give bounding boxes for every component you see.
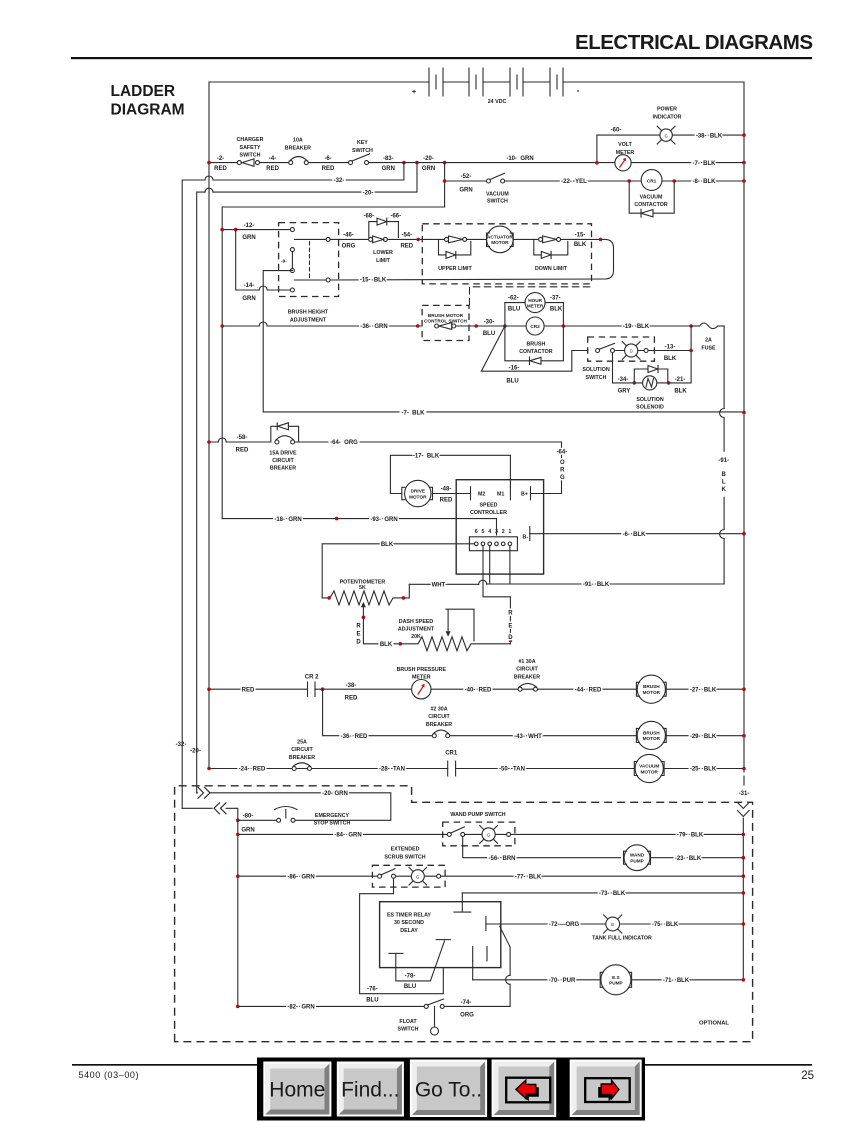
hour meter M2: [505, 293, 564, 313]
svg-text:-15-: -15-: [575, 233, 586, 239]
node row1-left rail junction: [207, 161, 211, 165]
svg-text:-23- BLK: -23- BLK: [675, 856, 702, 862]
chevron break -80-: [214, 803, 226, 814]
svg-text:RED: RED: [236, 448, 249, 454]
wire -86- GRN row: [238, 875, 378, 877]
svg-text:CONTROL SWITCH: CONTROL SWITCH: [424, 319, 467, 324]
motor brush motor 1: [636, 675, 666, 703]
svg-text:-66-: -66-: [390, 214, 401, 220]
wire -91- BLK vertical: [723, 326, 725, 584]
wire pin4 pin1 WHT row: [490, 546, 510, 584]
svg-text:-76-: -76-: [367, 986, 378, 992]
svg-text:+: +: [412, 89, 416, 96]
svg-text:BLU: BLU: [508, 306, 520, 312]
svg-text:DASH SPEED: DASH SPEED: [399, 619, 434, 625]
svg-text:EXTENDED: EXTENDED: [391, 847, 420, 853]
svg-text:BLU: BLU: [404, 984, 416, 990]
switch S8 brush motor control switch: [422, 305, 469, 340]
svg-text:-14-: -14-: [244, 283, 255, 289]
wire -60- power indicator branch: [597, 135, 744, 163]
svg-text:-79- BLK: -79- BLK: [677, 833, 704, 839]
wire -72- ORG row: [486, 923, 743, 925]
wire WHT -91- row: [409, 583, 724, 586]
svg-text:5400 (03–00): 5400 (03–00): [79, 1070, 139, 1080]
button previous page: [492, 1060, 557, 1118]
svg-text:-56- BRN: -56- BRN: [488, 856, 515, 862]
svg-text:SWITCH: SWITCH: [352, 148, 373, 154]
svg-text:G: G: [630, 349, 633, 354]
svg-text:D: D: [356, 640, 361, 646]
svg-text:HOUR: HOUR: [528, 298, 542, 303]
svg-text:-36- RED: -36- RED: [341, 734, 368, 740]
svg-text:ADJUSTMENT: ADJUSTMENT: [290, 317, 327, 323]
svg-text:-31-: -31-: [739, 791, 750, 797]
svg-text:E: E: [356, 632, 360, 638]
svg-text:1: 1: [508, 529, 511, 535]
wire -14- GRN row: [236, 230, 291, 290]
svg-text:E.S: E.S: [612, 975, 620, 980]
svg-text:#2 30A: #2 30A: [430, 707, 447, 713]
svg-text:-25- BLK: -25- BLK: [690, 767, 717, 773]
svg-text:-29- BLK: -29- BLK: [690, 734, 717, 740]
svg-text:-20-: -20-: [423, 156, 434, 162]
svg-text:SWITCH: SWITCH: [240, 153, 261, 159]
wire -9- link feed: [263, 271, 292, 412]
svg-text:R: R: [356, 624, 361, 630]
svg-text:-19- BLK: -19- BLK: [623, 324, 650, 330]
svg-text:G: G: [560, 475, 565, 481]
svg-text:G: G: [664, 133, 667, 138]
wire -6- BLK row: [530, 533, 744, 535]
svg-text:-74-: -74-: [461, 1000, 472, 1006]
relay contact CR1: [445, 751, 458, 777]
svg-text:G: G: [487, 833, 490, 838]
wire -84- GRN row: [238, 833, 447, 835]
svg-text:BRUSH HEIGHT: BRUSH HEIGHT: [288, 310, 329, 316]
node vacuum row rail junction: [742, 179, 746, 183]
svg-text:DIAGRAM: DIAGRAM: [111, 102, 185, 119]
relay contact ES-B: [389, 952, 403, 954]
motor vacuum motor: [634, 754, 664, 782]
potentiometer R1 5K: [322, 579, 409, 605]
svg-text:SAFETY: SAFETY: [240, 145, 261, 151]
svg-text:MOTOR: MOTOR: [643, 690, 661, 695]
wire CR2 contact row RED: [209, 688, 744, 690]
svg-text:CR1: CR1: [647, 178, 657, 183]
svg-text:PUMP: PUMP: [630, 859, 644, 864]
volt meter M1: [615, 142, 635, 171]
svg-text:RED: RED: [440, 498, 453, 504]
svg-text:BREAKER: BREAKER: [289, 755, 315, 761]
svg-text:GRN: GRN: [459, 188, 472, 194]
svg-text:CR 2: CR 2: [305, 675, 319, 681]
chevron break right rail down: [738, 803, 750, 817]
svg-text:-34-: -34-: [618, 377, 629, 383]
motor wand pump: [624, 845, 744, 871]
wire -70- PUR row: [473, 979, 744, 981]
svg-text:MOTOR: MOTOR: [643, 736, 661, 741]
wire -78- BLU link: [396, 941, 445, 981]
svg-text:BLK: BLK: [381, 542, 394, 548]
switch S2 key switch: [349, 140, 374, 165]
svg-text:EMERGENCY: EMERGENCY: [315, 813, 350, 819]
svg-text:-64- ORG: -64- ORG: [330, 440, 358, 446]
wire -54- segment: [387, 238, 444, 240]
svg-text:BRUSH: BRUSH: [643, 684, 660, 689]
optional equipment dashed enclosure: [175, 786, 753, 1042]
switch S3 vacuum switch: [486, 173, 509, 205]
svg-text:10A: 10A: [293, 138, 303, 144]
relay contact ES-C: [473, 947, 487, 961]
wire -58- row: [209, 442, 562, 494]
relay contact ES-D blade: [485, 917, 487, 931]
svg-text:-46-: -46-: [343, 233, 354, 239]
button Home: [263, 1062, 331, 1117]
wire -76- BLU link: [360, 878, 444, 994]
svg-text:D: D: [508, 635, 513, 641]
svg-text:MOTOR: MOTOR: [491, 240, 509, 245]
wire -36- RED row: [323, 689, 744, 736]
svg-text:Go To..: Go To..: [415, 1079, 482, 1102]
svg-text:-54-: -54-: [401, 233, 412, 239]
svg-text:-7- BLK: -7- BLK: [693, 161, 717, 167]
svg-text:LOWER: LOWER: [373, 250, 393, 256]
svg-text:SPEED: SPEED: [480, 503, 498, 509]
node vacuum row junction: [443, 179, 447, 183]
svg-text:-84- GRN: -84- GRN: [334, 833, 361, 839]
svg-text:-27- BLK: -27- BLK: [690, 687, 717, 693]
brush pressure meter M3: [397, 667, 447, 699]
battery B1 24VDC: [412, 68, 580, 105]
svg-text:L: L: [722, 480, 726, 486]
svg-text:-32-: -32-: [334, 178, 345, 184]
svg-text:LIMIT: LIMIT: [376, 258, 391, 264]
node J1: [402, 161, 406, 165]
svg-text:-82- GRN: -82- GRN: [287, 1005, 314, 1011]
svg-text:-93- GRN: -93- GRN: [370, 517, 397, 523]
svg-text:2: 2: [502, 529, 505, 535]
svg-text:BREAKER: BREAKER: [426, 722, 452, 728]
svg-text:-62-: -62-: [508, 295, 519, 301]
wire -16- BLU link: [481, 326, 587, 371]
svg-text:-75- BLK: -75- BLK: [652, 922, 679, 928]
svg-text:-8- BLK: -8- BLK: [693, 179, 717, 185]
svg-text:-32-: -32-: [176, 742, 187, 748]
svg-text:20K: 20K: [411, 634, 421, 640]
wire -56- BRN row: [463, 836, 621, 857]
wire -73- BLK row: [462, 892, 743, 894]
svg-text:SWITCH: SWITCH: [586, 375, 607, 381]
svg-text:GRN: GRN: [382, 166, 395, 172]
node CR1 coil right: [672, 179, 676, 183]
svg-text:-7- BLK: -7- BLK: [402, 410, 426, 416]
svg-text:DELAY: DELAY: [400, 928, 418, 934]
svg-text:-83-: -83-: [383, 156, 394, 162]
rheostat R2 dash speed adjustment 20K: [394, 609, 510, 651]
svg-text:-28- TAN: -28- TAN: [379, 767, 405, 773]
svg-text:25A: 25A: [297, 740, 307, 746]
svg-text:FUSE: FUSE: [701, 345, 716, 351]
switch S4 brush height adjustment: [279, 223, 339, 324]
svg-text:-40- RED: -40- RED: [465, 687, 492, 693]
motor drive motor: [390, 480, 470, 506]
header rule: [71, 57, 812, 59]
wire wiper RED drop: [363, 617, 378, 644]
svg-text:DRIVE: DRIVE: [411, 489, 425, 494]
svg-text:CIRCUIT: CIRCUIT: [516, 667, 538, 673]
wire inner left bus: [237, 820, 239, 1006]
wire -74- riser: [509, 947, 511, 1006]
wire link row to brush bus: [222, 207, 444, 519]
svg-text:-6- BLK: -6- BLK: [623, 532, 647, 538]
circuit breaker CB3 #1 30A: [514, 659, 540, 691]
svg-text:15A DRIVE: 15A DRIVE: [269, 450, 297, 456]
svg-text:GRN: GRN: [422, 166, 435, 172]
circuit breaker CB1 10A: [285, 138, 311, 165]
svg-text:-: -: [577, 86, 580, 95]
svg-text:-52-: -52-: [461, 174, 472, 180]
fuse F1 2A: [691, 323, 724, 351]
svg-text:RED: RED: [345, 696, 358, 702]
svg-text:-15- BLK: -15- BLK: [360, 278, 387, 284]
svg-text:-24- RED: -24- RED: [239, 767, 266, 773]
switch S6 upper limit with bypass diode: [438, 236, 472, 272]
circuit breaker CB2 15A drive with bypass diode: [269, 423, 298, 472]
svg-text:SOLUTION: SOLUTION: [582, 367, 610, 373]
wire pin5 RED drop: [483, 546, 510, 644]
svg-text:-50- TAN: -50- TAN: [499, 767, 525, 773]
node power row rail junction: [742, 133, 746, 137]
svg-text:-6-: -6-: [324, 156, 331, 162]
svg-text:Home: Home: [269, 1079, 325, 1102]
svg-text:CIRCUIT: CIRCUIT: [428, 714, 450, 720]
svg-text:-68-: -68-: [363, 214, 374, 220]
svg-text:-22- YEL: -22- YEL: [561, 179, 587, 185]
svg-text:-17- BLK: -17- BLK: [413, 454, 440, 460]
svg-text:MOTOR: MOTOR: [641, 769, 659, 774]
svg-text:OPTIONAL: OPTIONAL: [699, 1021, 729, 1027]
svg-text:#1 30A: #1 30A: [518, 659, 535, 665]
svg-text:-10- GRN: -10- GRN: [506, 156, 533, 162]
svg-text:-43- WHT: -43- WHT: [514, 734, 542, 740]
actuator assembly dashed box: [422, 224, 591, 284]
wire -17- BLK loop: [390, 455, 510, 493]
wire row1: [209, 162, 744, 164]
svg-text:-91-: -91-: [718, 458, 729, 464]
wire -46- ORG segment: [330, 238, 369, 240]
node J2: [415, 161, 419, 165]
wire -15- return loop: [330, 239, 613, 280]
svg-text:-38- BLK: -38- BLK: [696, 133, 723, 139]
svg-text:GRY: GRY: [618, 389, 631, 395]
motor actuator motor: [467, 226, 539, 253]
button next page: [570, 1060, 642, 1118]
svg-text:-60-: -60-: [611, 128, 622, 134]
svg-text:CIRCUIT: CIRCUIT: [272, 458, 294, 464]
svg-text:E: E: [508, 624, 512, 630]
wire top rail: [209, 81, 744, 83]
svg-text:STOP SWITCH: STOP SWITCH: [314, 821, 351, 827]
navigation bar: [257, 1058, 645, 1121]
wire right rail: [743, 82, 745, 785]
svg-text:R: R: [560, 468, 565, 474]
wire -32- to -80- link: [182, 808, 238, 820]
lamp power indicator: [653, 107, 682, 145]
switch S1 charger safety switch: [237, 137, 264, 166]
solenoid solution solenoid with bypass diode: [613, 328, 693, 411]
switch S12 extended scrub switch with lamp: [372, 847, 445, 887]
svg-text:BLU: BLU: [366, 997, 378, 1003]
svg-text:O: O: [560, 460, 565, 466]
svg-text:-4-: -4-: [269, 156, 276, 162]
svg-text:CONTROLLER: CONTROLLER: [470, 510, 507, 516]
svg-text:VOLT: VOLT: [618, 142, 632, 148]
circuit breaker CB4 #2 30A: [426, 707, 452, 738]
wire -79- BLK: [511, 833, 744, 835]
svg-text:CONTACTOR: CONTACTOR: [519, 349, 553, 355]
svg-text:-72-—ORG: -72-—ORG: [549, 922, 580, 928]
svg-text:BLK: BLK: [380, 642, 393, 648]
wire -32- feed: [182, 163, 404, 809]
svg-text:VACUUM: VACUUM: [640, 195, 663, 201]
svg-text:-58-: -58-: [237, 435, 248, 441]
svg-text:SOLENOID: SOLENOID: [636, 404, 664, 410]
svg-text:CR2: CR2: [530, 324, 540, 329]
speed controller U1: [456, 480, 561, 574]
svg-text:6: 6: [475, 529, 478, 535]
svg-text:-38-: -38-: [346, 683, 357, 689]
footer rule: [72, 1064, 812, 1066]
switch S5 lower limit with bypass diodes: [363, 214, 401, 264]
svg-text:BLK: BLK: [574, 242, 587, 248]
svg-text:-21-: -21-: [675, 377, 686, 383]
wire right feed inside optional box: [742, 818, 744, 980]
svg-text:INDICATOR: INDICATOR: [653, 114, 682, 120]
svg-text:-16-: -16-: [509, 366, 520, 372]
svg-text:ELECTRICAL DIAGRAMS: ELECTRICAL DIAGRAMS: [575, 31, 813, 54]
svg-text:BRUSH PRESSURE: BRUSH PRESSURE: [397, 667, 447, 673]
switch S11 wand pump switch with lamp: [443, 812, 515, 846]
lamp tank full indicator: [592, 915, 652, 942]
svg-text:BLK: BLK: [550, 306, 563, 312]
svg-text:RED: RED: [214, 166, 227, 172]
svg-text:GRN: GRN: [242, 296, 255, 302]
svg-text:G: G: [416, 874, 419, 879]
svg-text:GRN: GRN: [241, 828, 254, 834]
node CR2 box left: [503, 324, 507, 328]
chevron break -20-: [198, 787, 210, 798]
svg-text:4: 4: [488, 529, 491, 535]
svg-text:ACTUATOR: ACTUATOR: [487, 234, 513, 239]
svg-text:B-: B-: [523, 535, 529, 541]
wire vacuum switch row: [445, 163, 744, 207]
relay ES timer relay box: [380, 902, 501, 968]
svg-text:-70- PUR: -70- PUR: [549, 978, 576, 984]
node emergency stop junction: [236, 819, 240, 823]
switch S13 float switch: [398, 999, 445, 1035]
svg-text:5: 5: [482, 529, 485, 535]
svg-text:SCRUB SWITCH: SCRUB SWITCH: [384, 854, 425, 860]
node row1-right rail junction: [742, 161, 746, 165]
svg-text:-9-: -9-: [281, 259, 287, 264]
svg-text:BREAKER: BREAKER: [285, 145, 311, 151]
svg-text:VACUUM: VACUUM: [639, 764, 659, 769]
relay coil CR1 vacuum contactor: [629, 170, 674, 218]
svg-text:-73- BLK: -73- BLK: [599, 891, 626, 897]
svg-text:RED: RED: [242, 687, 255, 693]
svg-text:R: R: [508, 611, 513, 617]
svg-text:WHT: WHT: [432, 583, 446, 589]
node J3: [443, 161, 447, 165]
circuit breaker CB5 25A: [289, 740, 315, 771]
svg-text:-71- BLK: -71- BLK: [663, 978, 690, 984]
svg-text:-77- BLK: -77- BLK: [515, 874, 542, 880]
svg-text:-78-: -78-: [405, 974, 416, 980]
switch S10 emergency stop: [238, 807, 351, 827]
svg-text:M1: M1: [497, 492, 504, 498]
wire -20- GRN into box: [197, 793, 391, 821]
svg-text:CIRCUIT: CIRCUIT: [291, 747, 313, 753]
svg-text:-2-: -2-: [217, 156, 224, 162]
svg-text:-36- GRN: -36- GRN: [360, 324, 387, 330]
switch S7 down limit with bypass diode: [534, 236, 568, 272]
svg-text:WAND PUMP SWITCH: WAND PUMP SWITCH: [450, 812, 505, 818]
svg-text:RED: RED: [400, 244, 413, 250]
svg-text:MOTOR: MOTOR: [409, 494, 427, 499]
svg-text:SOLUTION: SOLUTION: [636, 397, 664, 403]
wire -77- BLK: [441, 875, 744, 877]
node CR2 box right: [562, 324, 566, 328]
svg-text:BREAKER: BREAKER: [514, 674, 540, 680]
relay coil CR2 brush contactor: [505, 303, 564, 365]
svg-text:-13-: -13-: [665, 344, 676, 350]
svg-text:-86- GRN: -86- GRN: [287, 874, 314, 880]
svg-text:BLU: BLU: [506, 379, 518, 385]
svg-text:30 SECOND: 30 SECOND: [394, 920, 424, 926]
svg-text:25: 25: [801, 1070, 814, 1082]
wire -12- GRN row: [222, 229, 290, 231]
svg-text:-48-: -48-: [441, 487, 452, 493]
svg-text:-20-: -20-: [363, 190, 374, 196]
svg-text:K: K: [722, 487, 727, 493]
svg-text:5K: 5K: [359, 585, 366, 591]
svg-text:24 VDC: 24 VDC: [488, 99, 507, 105]
svg-text:RED: RED: [266, 166, 279, 172]
svg-text:-91- BLK: -91- BLK: [583, 582, 610, 588]
svg-text:-12-: -12-: [244, 223, 255, 229]
svg-text:BLU: BLU: [483, 331, 495, 337]
svg-text:WAND: WAND: [630, 853, 645, 858]
svg-text:-44- RED: -44- RED: [575, 687, 602, 693]
svg-text:SWITCH: SWITCH: [398, 1027, 419, 1033]
svg-text:VACUUM: VACUUM: [486, 192, 509, 198]
svg-text:-37-: -37-: [550, 295, 561, 301]
svg-text:-20- GRN: -20- GRN: [322, 791, 348, 797]
svg-text:ADJUSTMENT: ADJUSTMENT: [398, 627, 435, 633]
svg-text:METER: METER: [527, 304, 544, 309]
svg-text:LADDER: LADDER: [111, 83, 176, 100]
node BMCS input: [416, 324, 420, 328]
svg-text:BLK: BLK: [674, 389, 687, 395]
svg-text:-20-: -20-: [190, 749, 201, 755]
svg-text:GRN: GRN: [242, 235, 255, 241]
wire -36- GRN row: [222, 325, 505, 327]
svg-text:KEY: KEY: [357, 140, 368, 146]
svg-text:RED: RED: [322, 166, 335, 172]
svg-text:TANK FULL INDICATOR: TANK FULL INDICATOR: [592, 936, 652, 942]
wire -19- BLK row: [563, 325, 691, 327]
svg-text:-80-: -80-: [243, 814, 254, 820]
